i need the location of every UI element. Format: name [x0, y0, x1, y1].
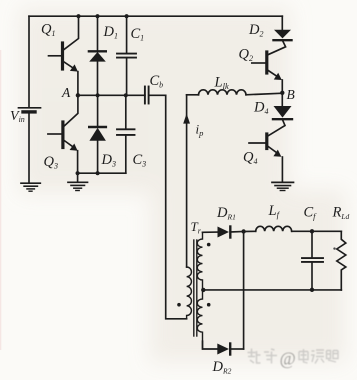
wire secondary bottom to DR2 [203, 341, 218, 349]
transistor Q2 [252, 40, 286, 93]
transformer primary winding [187, 267, 192, 319]
diode DR1 [218, 227, 244, 238]
junction dot Lf Cf top [310, 229, 314, 233]
secondary lower polarity dot [207, 303, 211, 307]
capacitor C3 [117, 95, 135, 173]
wire Llk to B [246, 93, 282, 95]
speckle near RLd [333, 247, 335, 249]
transistor Q3 [48, 95, 78, 173]
junction dot top rail Q1 [76, 14, 80, 18]
diode D3 [89, 95, 106, 173]
node A wire rail [78, 94, 145, 96]
wire right rail top [281, 16, 283, 30]
scan edge artifact left [0, 50, 1, 350]
junction node A [76, 93, 80, 97]
wire left rail lower [28, 114, 30, 183]
junction dot top rail D1 [95, 14, 99, 18]
svg-text:A: A [61, 85, 71, 100]
junction dot center tap [201, 288, 205, 292]
wire output top rail right [292, 230, 342, 232]
wire DR2 cathode up to output rail [243, 232, 245, 350]
ground under Vin [21, 183, 40, 191]
junction dot Cf bottom [310, 288, 314, 292]
current arrow ip [183, 114, 190, 124]
resistor RLd [337, 231, 346, 290]
junction dot A rail D3 [96, 93, 100, 97]
junction dot top rail C1 [125, 14, 129, 18]
wire output top rail left [244, 230, 256, 232]
transformer secondary upper winding [197, 232, 202, 290]
inductor Llk wire to node B [187, 94, 199, 96]
wire top rail [29, 15, 282, 17]
inductor Llk [199, 90, 247, 95]
wire secondary top to DR1 [203, 231, 218, 233]
transistor Q1 [49, 16, 79, 95]
diode D4 [273, 93, 292, 119]
svg-text:RLd: RLd [332, 205, 350, 222]
inductor Lf [256, 226, 292, 231]
junction dot A rail C3 [124, 93, 128, 97]
wire bottom left [78, 172, 126, 174]
transformer secondary lower winding [197, 290, 202, 349]
svg-text:@: @ [280, 349, 296, 369]
diode DR2 [217, 344, 243, 355]
junction dot bottom D3 [96, 171, 100, 175]
wire primary top lead [186, 95, 188, 267]
voltage source Vin battery [19, 108, 41, 112]
diode D2 [274, 30, 292, 40]
capacitor Cf [302, 231, 323, 289]
svg-text:B: B [287, 87, 295, 102]
capacitor Cb [145, 87, 166, 104]
wire output bottom rail center tap [203, 289, 342, 291]
capacitor C1 [117, 16, 136, 95]
transformer Tr core [194, 240, 197, 336]
ground under Q4 [272, 182, 294, 190]
watermark zhihu [248, 349, 341, 369]
ground under Q3 [68, 173, 88, 190]
wire left rail upper [28, 16, 30, 107]
junction dot DR1 output [241, 229, 245, 233]
junction node B [280, 91, 284, 95]
junction dot bottom Q3 [76, 171, 80, 175]
primary polarity dot [177, 303, 181, 307]
wire Cb down to transformer primary bottom [166, 95, 187, 318]
diode D1 [89, 16, 106, 95]
secondary upper polarity dot [207, 243, 211, 247]
transistor Q4 [249, 119, 285, 181]
